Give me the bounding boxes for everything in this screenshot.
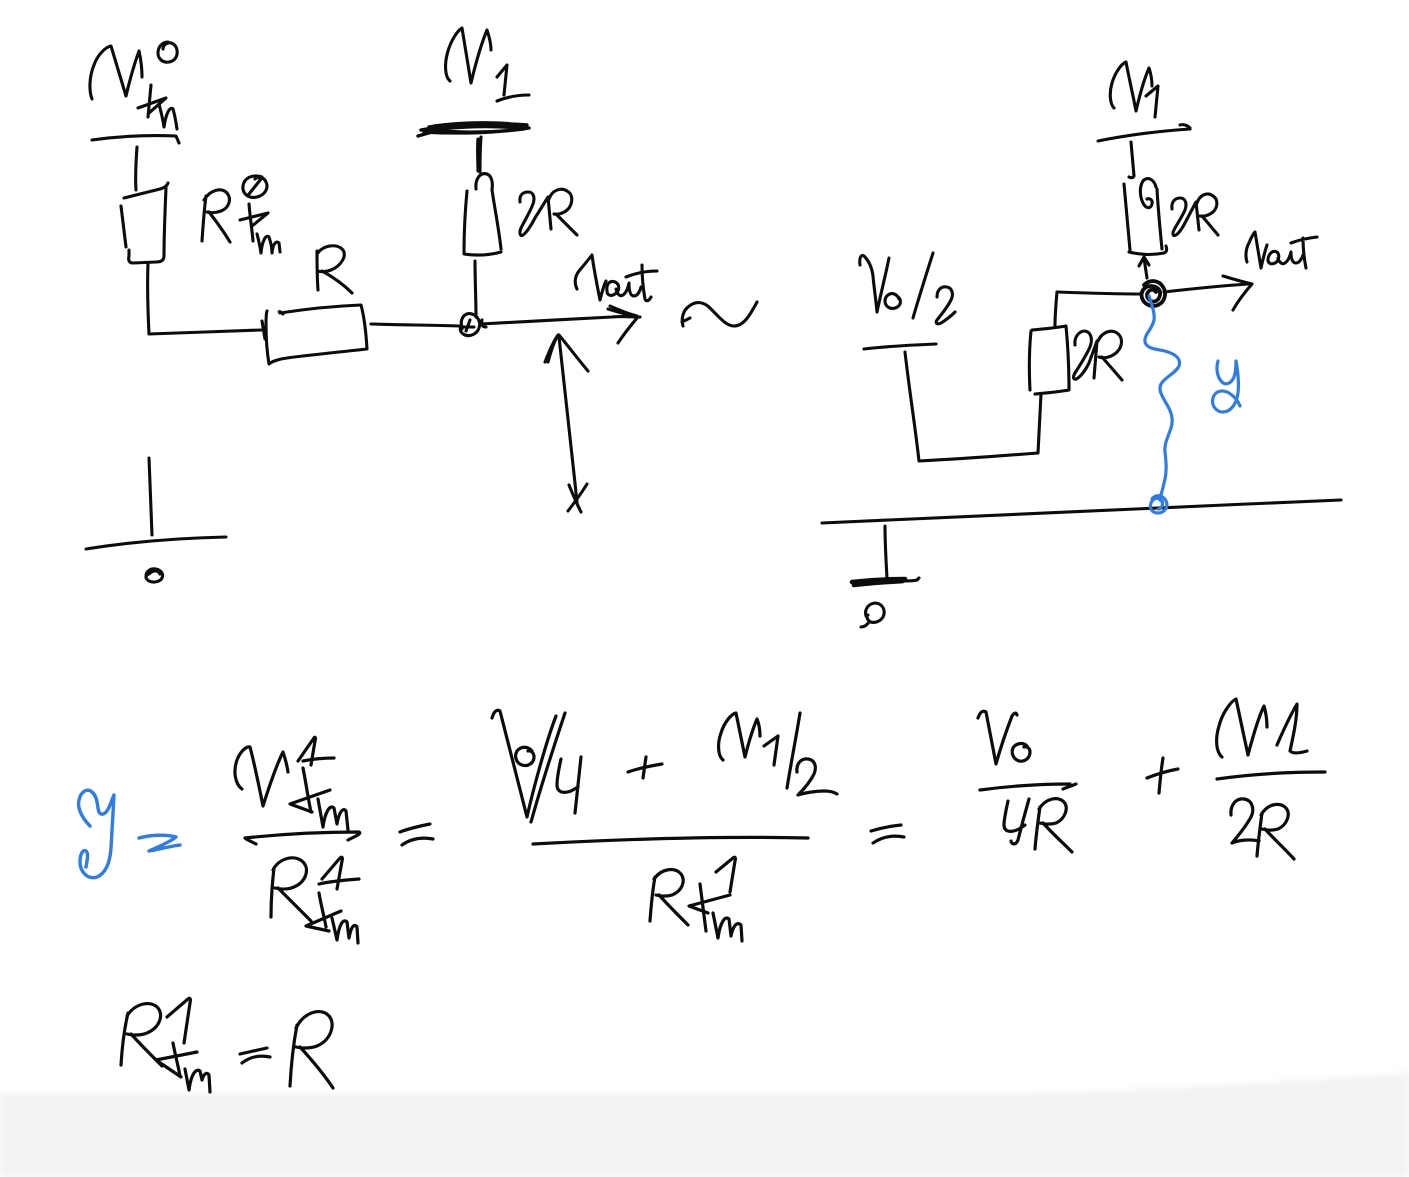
resistor Rth0 body [124, 183, 168, 198]
equation frac3 term2 bar [1217, 772, 1325, 779]
voltage indicator double arrow: shaft [559, 337, 577, 502]
approx tilde mark [682, 302, 757, 326]
label Rth0 : subscript t [240, 204, 268, 241]
source Vth0 terminal bar [92, 136, 179, 143]
resistor 2R (right circuit, left leg) body [1029, 326, 1069, 394]
resistor 2R (left circuit) top hook [476, 174, 492, 190]
resistor 2R (left circuit) body [464, 190, 501, 255]
label Vth0 : letter N [90, 46, 142, 99]
node A [460, 314, 486, 336]
equation plus 2 [1147, 758, 1178, 793]
label N1 (right circuit): subscript 1 [1146, 86, 1158, 117]
equation frac3 term1 numerator: subscript o [1012, 744, 1030, 762]
equation frac3 term1 bar [980, 784, 1076, 790]
wire node B left to corner [1057, 292, 1141, 294]
equation frac2 numerator: plus [628, 757, 662, 778]
equation frac3 term2 denominator: digit 2 [1231, 799, 1259, 843]
node B (right circuit output node) [1142, 281, 1165, 306]
equation frac2 numerator: subscript o [516, 747, 534, 765]
blue current label y (right circuit) [1213, 361, 1240, 412]
label N1 (left circuit): underline [497, 95, 529, 101]
voltage indicator double arrow: bottom head [568, 484, 587, 512]
wire 2R to node B with small arrow [1139, 257, 1149, 278]
arrowhead Vout (left circuit) [608, 306, 638, 343]
equation equals 2 [400, 824, 433, 845]
resistor R body [266, 305, 367, 364]
result line: superscript 1 [167, 998, 190, 1043]
label Vth0 : subscript t [138, 85, 166, 117]
equation frac2 denominator: subscript t [689, 884, 730, 931]
wire node A up to 2R [475, 261, 476, 317]
equation frac1 bar [245, 832, 360, 844]
ground (right circuit): 0 glyph [861, 603, 884, 627]
node N1 plate (scribbled bar, left circuit) [418, 123, 529, 136]
equation frac2 bar [533, 837, 808, 844]
equation frac2 denominator: superscript 1 [716, 857, 735, 892]
value label 2R (left circuit): letter R [549, 189, 577, 235]
label R [317, 246, 352, 293]
gray desk area below canvas [0, 1073, 1409, 1177]
equation frac1 numerator: letter N of Vth1 [235, 747, 288, 806]
label Vth0 : subscript h [159, 104, 177, 129]
value label 2R (right circuit, top): letter R [1197, 194, 1218, 235]
label Rth0 : superscript 0 [243, 176, 267, 197]
value label 2R (right circuit, top): digit 2 [1172, 198, 1199, 236]
equation frac2 numerator: slash [531, 713, 565, 822]
result line: letter R [290, 1012, 333, 1088]
wire N1 plate to 2R (right circuit) [1129, 142, 1134, 178]
equation frac2 numerator: slash 2 [787, 713, 800, 788]
resistor R left tick [262, 321, 265, 339]
equation equals 3 [871, 825, 904, 843]
equation frac2 numerator: digit 2 [797, 759, 837, 795]
ground rail (right circuit) [822, 500, 1341, 523]
equation frac2 numerator: subscript 1 [764, 736, 778, 765]
label Vth0 : superscript 0 [158, 42, 177, 62]
equation frac2 numerator: letter V of Vo [492, 710, 556, 817]
equation frac3 term1 denominator: letter R [1035, 799, 1072, 852]
equation frac2 numerator: letter N of V1 [719, 713, 760, 760]
ground (right circuit): stem [885, 526, 887, 578]
wire Rth0 down and right to R [148, 263, 261, 334]
arrowhead Vout (right circuit) [1223, 276, 1252, 310]
ground (left circuit): stem [149, 458, 152, 535]
equation frac1 numerator: subscript h [318, 799, 348, 830]
label Vo/2: slash [913, 253, 933, 318]
equation frac1 denominator: superscript 1 [319, 857, 359, 889]
result line: subscript t [156, 1043, 197, 1077]
source Vo/2 terminal bar [864, 344, 936, 349]
equation frac1 denominator: letter R of Rth1 [271, 858, 311, 921]
value label 2R (left circuit): digit 2 [520, 192, 551, 236]
wire Vth0 to Rth0 [136, 147, 137, 190]
label Vo/2: digit 2 [936, 287, 955, 324]
label Vout (left circuit) [575, 255, 606, 300]
result line: letter R of Rth1 [121, 1004, 162, 1066]
label N1 (left circuit): subscript 1 [497, 65, 507, 95]
label Rth0 : subscript h [257, 234, 280, 253]
wire corner down to 2R (right circuit, left leg) [1055, 292, 1057, 326]
equation frac3 term2 denominator: letter R [1257, 804, 1294, 859]
result line: subscript h [185, 1069, 210, 1092]
equation frac2 denominator: letter R of Rth1 [650, 870, 688, 925]
wire node B to Vout arrow (right circuit) [1164, 284, 1248, 292]
wire N1 plate to 2R (doubled) [478, 137, 481, 172]
equation frac2 denominator: subscript h [713, 913, 742, 941]
equation: blue equals [139, 835, 180, 851]
blue wire y from node B to ground rail [1145, 296, 1180, 500]
ground (left circuit): bar [86, 537, 226, 549]
wire R to node A [371, 324, 459, 326]
value label 2R (right circuit, left leg): letter R [1098, 331, 1122, 380]
result line: equals [240, 1048, 270, 1063]
equation frac1 numerator: superscript 1 [298, 737, 334, 765]
label N1 (left circuit): letter N [446, 28, 491, 83]
equation: blue y (left side) [79, 790, 114, 877]
blue junction dot on ground rail [1150, 496, 1167, 513]
equation frac1 denominator: subscript h [332, 918, 358, 943]
ground (right circuit): bar [852, 579, 905, 585]
wire 2R bottom to source Vo/2 (L shape) [905, 352, 1041, 461]
equation frac3 term2 numerator: letter N of V1 [1217, 699, 1267, 757]
equation frac3 term1 denominator: digit 4 [1004, 799, 1029, 844]
label N1 (right circuit): letter N [1110, 62, 1152, 111]
resistor 2R (right circuit, top) body [1124, 179, 1167, 255]
equation frac1 denominator: subscript t [306, 893, 341, 931]
ground (left circuit): 0 blob [146, 569, 163, 582]
node N1 plate (right circuit) [1098, 125, 1190, 141]
label Vo/2: letter V [860, 255, 889, 312]
label Rth0 : letter R [202, 190, 230, 242]
voltage indicator double arrow: top head [545, 335, 588, 371]
value label 2R (right circuit, left leg): digit 2 [1074, 331, 1097, 379]
label Vout (right circuit) [1246, 232, 1267, 268]
equation frac1 numerator: subscript t [290, 768, 330, 812]
equation frac3 term1 numerator: letter V of Vo [978, 711, 1017, 764]
equation frac2 numerator: digit 4 [557, 757, 581, 813]
label Vo/2: subscript o [885, 294, 900, 309]
wire node A to Vout arrow (left circuit) [481, 317, 640, 324]
equation frac3 term2 numerator: subscript 1 [1277, 704, 1307, 753]
